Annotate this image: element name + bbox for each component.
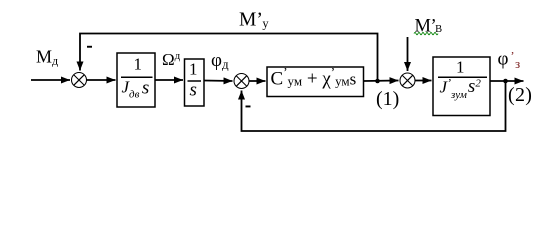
svg-text:М’у: М’у	[239, 9, 269, 30]
svg-text:(2): (2)	[508, 84, 532, 106]
wire block1 to block2	[155, 79, 183, 81]
svg-text:1: 1	[134, 54, 143, 73]
block 1/s	[185, 59, 205, 106]
summing junction sum1	[72, 73, 87, 88]
wire feedback top: up from junction, across, down into sum1	[80, 34, 378, 82]
svg-text:φ’з: φ’з	[498, 49, 521, 71]
summing junction sum2	[234, 74, 249, 89]
wire input arrow to sum1	[31, 79, 70, 81]
svg-text:1: 1	[189, 60, 198, 79]
block 1/(Jdv s)	[117, 53, 155, 107]
svg-text:1: 1	[456, 58, 465, 77]
svg-text:φд: φд	[211, 50, 229, 72]
svg-text:Ωд: Ωд	[162, 50, 181, 69]
block 1/(J'zum s^2)	[433, 57, 490, 116]
wire block3 to sum3 with junction	[364, 80, 399, 83]
wire bottom feedback from junction2 to sum2	[242, 81, 506, 131]
minus sign at sum1	[87, 46, 92, 48]
green spellcheck squiggle under M'v	[414, 32, 438, 34]
svg-text:Мд: Мд	[36, 47, 58, 68]
wire output from block4	[490, 80, 524, 82]
junction node 1 dot	[375, 79, 380, 84]
wire block2 to sum2	[204, 80, 233, 83]
svg-text:(1): (1)	[376, 88, 399, 110]
wire sum1 to block1	[87, 79, 116, 81]
control system block diagram	[0, 0, 554, 170]
summing junction sum3	[400, 73, 415, 88]
wire sum2 to block3	[249, 80, 266, 82]
junction node 2 dot	[503, 79, 508, 84]
wire M'v arrow into sum3	[407, 37, 409, 71]
minus sign at sum2	[246, 106, 251, 108]
block Cum + chi_um s	[267, 64, 364, 96]
wire sum3 to block4	[415, 80, 432, 82]
svg-text:s: s	[190, 80, 197, 101]
